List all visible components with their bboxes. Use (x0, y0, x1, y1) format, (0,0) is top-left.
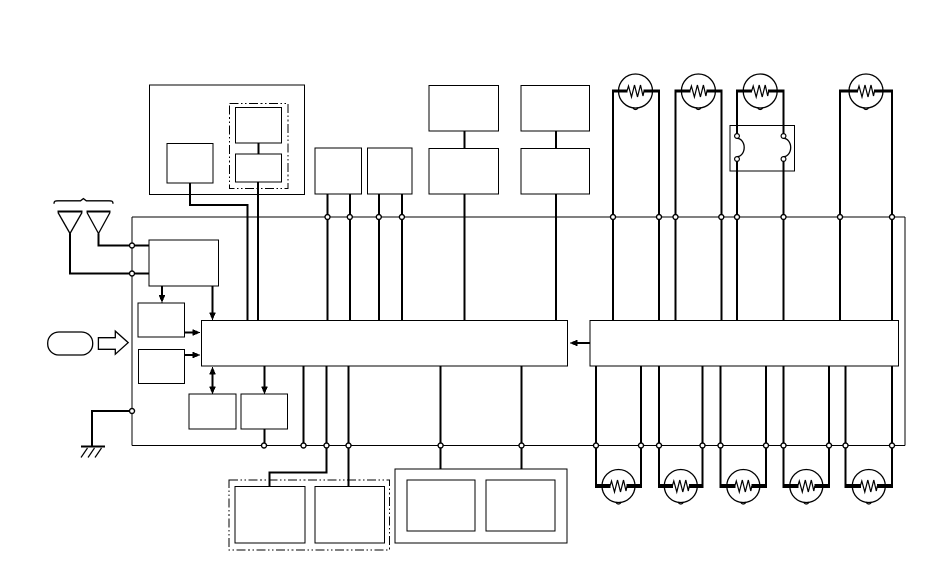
wire lamp TL4 right leg (891, 91, 893, 321)
node bottom rail x303 (301, 443, 306, 448)
lamp BL3 (720, 484, 736, 488)
wire ECU B pin to lamp BL1 left (595, 366, 597, 486)
wire receiver to ECU A (212, 286, 214, 314)
lamp BL4 (783, 484, 799, 488)
wire S2 pin 1 (378, 194, 380, 321)
node bottom rail box D (262, 443, 267, 448)
node top bus x892 (890, 215, 895, 220)
switch box S1 (315, 148, 362, 194)
optional-equipment dash-dot box (230, 104, 289, 189)
relay terminal right upper (781, 134, 786, 139)
lamp TL1 (612, 90, 628, 93)
wire bottom rail (132, 445, 905, 447)
wire lamp BL1 right leg (640, 366, 642, 486)
wire lamp BL5 right leg (891, 366, 893, 486)
wire lamp TL4 left leg (839, 91, 841, 321)
dash box 1 (235, 487, 305, 544)
lamp TL3 (736, 90, 752, 93)
relay box (730, 126, 795, 172)
wire P1 link (464, 131, 466, 149)
wire ECU B pin to lamp BL3 left (720, 366, 722, 486)
box B (139, 350, 185, 384)
wire P1 to ECU A (464, 194, 466, 321)
op-amp ECU A main box (202, 321, 568, 367)
op-amp ECU B main box (590, 321, 899, 367)
indicator group box (395, 469, 567, 543)
relay contact arc right (784, 138, 791, 156)
node bottom rail BL4 left (781, 443, 786, 448)
dash-dot box bottom (229, 480, 390, 550)
wire link between inner boxes (258, 143, 260, 154)
node bottom rail x348 (346, 443, 351, 448)
relay terminal left upper (735, 134, 740, 139)
lamp TL2 (675, 90, 691, 93)
wire lamp BL4 right leg (828, 366, 830, 486)
lamp BL1 (595, 484, 611, 488)
node top bus x349 (347, 215, 352, 220)
sensor box P2 upper (521, 86, 590, 132)
node bottom rail BL1 right (639, 443, 644, 448)
wire right rail (904, 217, 906, 446)
wire lamp TL3 right leg upper (783, 91, 785, 134)
dash box 2 (315, 487, 385, 544)
node bottom rail BL3 right (764, 443, 769, 448)
wire main bus (top rail) (132, 216, 905, 218)
relay contact arc left (737, 138, 744, 156)
sensor box P1 lower (429, 149, 499, 195)
node bottom rail x521 (519, 443, 524, 448)
wire box A to ECU A (185, 332, 194, 334)
wire ECU B to ECU A arrow (575, 342, 590, 344)
node bottom rail BL3 left (718, 443, 723, 448)
wire box B to ECU A (185, 354, 194, 356)
wire ECU A to dash box 1 (270, 366, 327, 487)
wire ground to left rail (92, 410, 132, 412)
node top bus x840 (838, 215, 843, 220)
wire lamp TL2 right leg (720, 91, 722, 321)
wire antenna 2 to receiver (99, 234, 150, 246)
sensor box P2 lower (521, 149, 590, 195)
transmitter key fob (48, 332, 93, 355)
node top bus x675 (673, 215, 678, 220)
wire ECU A to dash box 2 (348, 366, 350, 487)
wire ECU A to indicator box 1 (440, 366, 442, 469)
box A (138, 303, 185, 337)
indicator box 1 (407, 480, 475, 531)
antenna 1 (58, 211, 83, 213)
wire lamp TL3 right leg lower (783, 162, 785, 321)
node top bus x737 (735, 215, 740, 220)
wire receiver to box A (161, 286, 163, 297)
wire ground stem (91, 410, 93, 447)
wire P2 to ECU A (555, 194, 557, 321)
node top bus x613 (611, 215, 616, 220)
node top bus x721 (719, 215, 724, 220)
wire ECU B pin to lamp BL4 left (783, 366, 785, 486)
inner box upper (236, 108, 282, 144)
inner box lower (236, 154, 282, 182)
node top bus x378 (376, 215, 381, 220)
node bottom rail BL1 left (594, 443, 599, 448)
sub-module box (167, 144, 213, 184)
indicator box 2 (486, 480, 555, 531)
relay terminal left lower (735, 157, 740, 162)
wire S2 pin 2 (401, 194, 403, 321)
wire from sub-module to ECU A (190, 183, 248, 321)
node top bus x659 (657, 215, 662, 220)
wire lamp TL3 left leg upper (736, 91, 738, 134)
wire lamp TL2 left leg (675, 91, 677, 321)
receiver box (149, 240, 219, 286)
wire ECU B pin to lamp BL2 left (658, 366, 660, 486)
wire S1 pin 1 (327, 194, 329, 321)
switch box S2 (368, 148, 413, 194)
wire left rail (131, 217, 133, 446)
wire antenna 1 to receiver (70, 234, 149, 274)
box C (189, 394, 236, 429)
node bottom rail BL5 right (890, 443, 895, 448)
node top bus x327 (325, 215, 330, 220)
radio wave block arrow (98, 331, 128, 354)
box D (241, 394, 288, 429)
lamp TL4 (839, 90, 858, 93)
node top bus x401 (399, 215, 404, 220)
module group box (150, 85, 305, 195)
node bottom rail x440 (438, 443, 443, 448)
lamp BL2 (658, 484, 673, 488)
wire S1 pin 2 (349, 194, 351, 321)
antenna 2 (86, 211, 110, 213)
node bottom rail BL2 left (657, 443, 662, 448)
node left rail antenna lower (130, 271, 135, 276)
wire from inner lower box to ECU A (257, 182, 259, 321)
node top bus x783 (781, 215, 786, 220)
wire lamp TL3 left leg lower (736, 162, 738, 321)
wire lamp TL1 right leg (658, 91, 660, 321)
relay terminal right lower (781, 157, 786, 162)
node bottom rail BL2 right (700, 443, 705, 448)
wire ECU A to indicator box 2 (521, 366, 523, 469)
node bottom rail x326 (324, 443, 329, 448)
wire ECU B pin to lamp BL5 left (845, 366, 847, 486)
wire P2 link (555, 131, 557, 149)
node left rail antenna upper (130, 243, 135, 248)
node left rail ground (130, 409, 135, 414)
node bottom rail BL4 right (827, 443, 832, 448)
ground (81, 446, 105, 448)
node bottom rail BL5 left (843, 443, 848, 448)
wire ECU A to box C double arrow (212, 369, 214, 392)
wire lamp BL2 right leg (702, 366, 704, 486)
wire ECU A pin to bottom rail (303, 366, 305, 446)
wire ECU A to box D arrow (264, 366, 266, 388)
lamp BL5 (845, 484, 861, 488)
antenna brace (54, 199, 113, 204)
wire lamp TL1 left leg (612, 91, 614, 321)
wire lamp BL3 right leg (765, 366, 767, 486)
wire box D to bottom rail (264, 429, 266, 446)
sensor box P1 upper (429, 86, 499, 132)
